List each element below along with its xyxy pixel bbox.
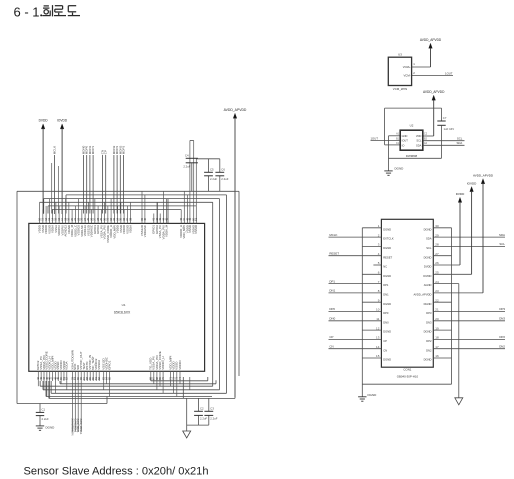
- wire rail t2: [66, 194, 227, 196]
- svg-text:MDP3: MDP3: [122, 146, 126, 155]
- svg-text:VDDHSC: VDDHSC: [143, 225, 147, 237]
- net label MDN1 wire: [89, 155, 91, 214]
- svg-text:DVDD: DVDD: [424, 265, 432, 269]
- svg-text:U2: U2: [410, 124, 414, 128]
- svg-text:SDA: SDA: [457, 141, 463, 145]
- net label MDP3 wire: [123, 155, 125, 214]
- svg-text:24: 24: [435, 280, 439, 284]
- svg-text:SDA: SDA: [416, 143, 422, 147]
- power flag AVDD_APVDD for U3: [429, 43, 433, 48]
- svg-text:DP2: DP2: [426, 339, 432, 343]
- svg-text:CAM_MCLK1: CAM_MCLK1: [79, 419, 83, 435]
- svg-text:CON1: CON1: [403, 368, 411, 372]
- svg-text:2.2uF: 2.2uF: [210, 417, 217, 421]
- svg-text:DP1: DP1: [383, 283, 389, 287]
- ground DGND left: [36, 426, 55, 431]
- svg-text:22: 22: [435, 298, 439, 302]
- U1 top pins group B: [140, 191, 147, 237]
- svg-text:VCM-: VCM-: [403, 74, 410, 78]
- capacitor C5: [204, 159, 217, 191]
- svg-text:EXTCLK: EXTCLK: [383, 237, 394, 241]
- analog ground triangle left block: [183, 431, 191, 438]
- net label CN wire: [102, 155, 104, 214]
- svg-text:DGND: DGND: [424, 227, 432, 231]
- svg-text:NC: NC: [383, 265, 387, 269]
- svg-text:1OUT: 1OUT: [371, 136, 379, 140]
- capacitor C3: [204, 398, 217, 425]
- net label MDP2 wire: [116, 155, 118, 214]
- svg-text:30: 30: [435, 224, 439, 228]
- svg-text:DGND: DGND: [424, 358, 432, 362]
- svg-text:19: 19: [435, 326, 439, 330]
- wire rail b5: [51, 392, 226, 394]
- U2 pin designators: [396, 133, 428, 145]
- svg-text:DN1: DN1: [383, 293, 389, 297]
- svg-text:IOVDD: IOVDD: [57, 119, 68, 123]
- wire rail b6: [46, 396, 212, 398]
- svg-text:DN3: DN3: [426, 320, 432, 324]
- wire CON1 IOVDD up: [433, 273, 471, 275]
- wire rail t6: [52, 209, 181, 211]
- svg-text:AVDD_APVDD: AVDD_APVDD: [224, 108, 247, 112]
- svg-text:DGND: DGND: [383, 358, 391, 362]
- wire CON1 DN2 out: [433, 348, 505, 350]
- svg-text:1uF 16V: 1uF 16V: [444, 127, 455, 131]
- analog ground triangle CON1: [455, 398, 463, 405]
- CON1 left DGND bus: [361, 228, 363, 397]
- svg-text:VSSD2: VSSD2: [97, 360, 101, 370]
- svg-text:29: 29: [435, 233, 439, 237]
- wire CON1 SCL out: [433, 245, 505, 247]
- wire AVDD to U2 VDD pin: [423, 135, 434, 137]
- capacitor C2: [194, 398, 207, 425]
- wire rail b2: [60, 383, 216, 385]
- svg-text:GB040-30P-H10: GB040-30P-H10: [397, 375, 419, 379]
- U1 top pins group C: [152, 191, 169, 239]
- wire U2 top rail: [385, 107, 442, 109]
- svg-text:VDDIO: VDDIO: [178, 360, 182, 370]
- capacitor C1 to DGND: [36, 404, 49, 426]
- svg-text:IOVDD: IOVDD: [467, 181, 477, 185]
- svg-text:DN0: DN0: [383, 320, 389, 324]
- svg-text:DGND: DGND: [383, 274, 391, 278]
- svg-text:C1: C1: [42, 407, 46, 411]
- U1 bottom pins group E: [168, 355, 182, 396]
- svg-text:DGND: DGND: [383, 227, 391, 231]
- svg-text:SCL: SCL: [457, 137, 463, 141]
- wire U2 IOUT 1OUT: [371, 140, 401, 142]
- svg-text:DVDD: DVDD: [39, 119, 49, 123]
- wire CON1 AGND down: [433, 283, 459, 285]
- wire CON1 DN3 out: [433, 320, 505, 322]
- svg-text:DGND: DGND: [424, 255, 432, 259]
- svg-text:DP2: DP2: [499, 335, 505, 339]
- CON1 right pin rows: [413, 224, 438, 362]
- power flag IOVDD CON1: [470, 187, 474, 192]
- power flag DVDD (top left): [41, 124, 45, 129]
- svg-text:VDDA_M: VDDA_M: [164, 224, 168, 237]
- svg-text:GND: GND: [402, 134, 408, 138]
- svg-text:DGND: DGND: [383, 330, 391, 334]
- svg-text:SDA: SDA: [426, 237, 432, 241]
- power flag AVDD_APVDD for U2: [432, 95, 436, 100]
- svg-text:2.2uF: 2.2uF: [200, 417, 207, 421]
- svg-text:SCL: SCL: [426, 246, 432, 250]
- svg-text:VDDIO_H: VDDIO_H: [161, 356, 165, 369]
- svg-text:2.2uF: 2.2uF: [210, 177, 217, 181]
- svg-text:1OUT: 1OUT: [445, 71, 453, 75]
- connector CON1 body: [381, 219, 433, 367]
- svg-text:DP0: DP0: [383, 311, 389, 315]
- net label CP wire: [105, 155, 107, 214]
- svg-text:MDP1: MDP1: [91, 146, 95, 155]
- svg-text:SCL: SCL: [499, 242, 505, 246]
- net label MDN2 wire: [113, 155, 115, 214]
- sensor IC U1 body: [29, 223, 205, 371]
- net label MCLK wire: [54, 155, 56, 214]
- U1 bottom pins group D: [149, 351, 165, 393]
- capacitor C4 with loop wire: [183, 141, 198, 192]
- svg-text:AVDD_APVDD: AVDD_APVDD: [423, 90, 445, 94]
- svg-text:DN1: DN1: [329, 289, 335, 293]
- svg-text:DGND: DGND: [383, 246, 391, 250]
- ground DGND U2: [384, 167, 404, 176]
- CON1 bottom wire to DGND: [362, 383, 451, 385]
- U1 top pins group A: [38, 199, 133, 243]
- svg-text:12: 12: [376, 326, 380, 330]
- svg-text:14: 14: [376, 345, 380, 349]
- net wires bottom (XSHUTDOWN/SCL/SDA/MCLK): [70, 381, 83, 436]
- svg-text:MCLK: MCLK: [329, 233, 337, 237]
- svg-text:CP: CP: [329, 335, 333, 339]
- svg-text:DP0: DP0: [329, 307, 335, 311]
- wire CON1 SDA out: [433, 236, 505, 238]
- ground DGND CON1: [358, 393, 377, 401]
- svg-text:DVDD: DVDD: [456, 192, 465, 196]
- svg-text:DW9808: DW9808: [406, 154, 418, 158]
- svg-text:GPIO1: GPIO1: [107, 360, 111, 370]
- svg-text:U3: U3: [398, 52, 402, 56]
- svg-text:DGND: DGND: [368, 393, 378, 397]
- CON1 left pin rows: [329, 224, 394, 362]
- svg-text:DN2: DN2: [499, 344, 505, 348]
- title hangul hoe-ro-do (drawn): [42, 5, 52, 16]
- svg-text:RESET: RESET: [329, 251, 339, 255]
- svg-text:VDDA: VDDA: [65, 361, 69, 369]
- svg-text:VCM+: VCM+: [403, 65, 411, 69]
- wire CON1 DVDD up: [433, 264, 460, 266]
- wire U2 SDA: [423, 144, 465, 146]
- svg-text:SDA: SDA: [499, 233, 505, 237]
- wire ring outer: [17, 191, 235, 403]
- svg-text:2.2uF: 2.2uF: [183, 165, 190, 169]
- wire drop x189.8: [189, 377, 191, 390]
- svg-text:SCL: SCL: [416, 139, 422, 143]
- svg-text:27: 27: [435, 252, 439, 256]
- U1 bottom pins group B (XSHUTDOWN SCK etc): [70, 350, 101, 381]
- svg-text:VSSIO: VSSIO: [194, 224, 198, 234]
- wire rail t5: [48, 205, 196, 207]
- wire rail b3: [40, 385, 213, 387]
- voice coil motor U3 body: [388, 57, 411, 85]
- wire rail for C5 C6: [196, 158, 220, 160]
- wire stubs up near MCLK: [51, 163, 53, 214]
- svg-text:IO: IO: [402, 143, 405, 147]
- net label MDP0 wire: [86, 155, 88, 214]
- svg-text:C2: C2: [200, 406, 204, 410]
- svg-text:2.2uF: 2.2uF: [42, 417, 49, 421]
- U1 bottom pins group A: [36, 351, 68, 398]
- svg-text:AVDD_APVDD: AVDD_APVDD: [420, 38, 442, 42]
- svg-text:C3: C3: [210, 406, 214, 410]
- capacitor C6: [215, 159, 228, 191]
- wire rail b4: [43, 389, 220, 391]
- svg-text:C6: C6: [221, 167, 225, 171]
- svg-text:CN: CN: [329, 344, 333, 348]
- svg-text:DGND: DGND: [424, 302, 432, 306]
- svg-text:DN2: DN2: [426, 348, 432, 352]
- wire rail b7 bottom bus: [49, 397, 235, 399]
- svg-text:17: 17: [435, 345, 439, 349]
- svg-text:VCM_2PIN: VCM_2PIN: [393, 87, 407, 91]
- wire rail b1: [151, 380, 208, 382]
- svg-text:AGND: AGND: [424, 283, 432, 287]
- svg-text:CN: CN: [383, 348, 387, 352]
- svg-text:AVDD_APVDD: AVDD_APVDD: [473, 174, 494, 178]
- net label MDP1 wire: [92, 155, 94, 214]
- capacitor C7: [437, 108, 454, 158]
- svg-text:C5: C5: [210, 167, 214, 171]
- wire rail t4: [40, 201, 213, 203]
- svg-text:RESET: RESET: [383, 255, 392, 259]
- svg-text:DGND: DGND: [395, 167, 405, 171]
- power flag DVDD CON1: [458, 197, 462, 202]
- svg-text:IOUT: IOUT: [402, 139, 409, 143]
- net label MDN0 wire: [83, 155, 85, 214]
- svg-text:DP3: DP3: [499, 307, 505, 311]
- svg-text:AVDD_APVDD: AVDD_APVDD: [413, 293, 431, 297]
- CON1 right DGND bus: [433, 228, 451, 384]
- svg-text:DN3: DN3: [499, 317, 505, 321]
- wire CON1 AVDD up: [433, 292, 483, 294]
- wire rail t3: [44, 198, 220, 200]
- U1 top pins group D: [179, 141, 198, 239]
- net label MDN3 wire: [119, 155, 121, 214]
- wire vertical right x239: [238, 191, 240, 376]
- power flag IOVDD (top left): [60, 124, 64, 129]
- svg-text:C7: C7: [443, 116, 447, 120]
- svg-text:CP: CP: [383, 339, 387, 343]
- power flag AVDD_APVDD (left block): [233, 113, 237, 118]
- svg-text:VDD: VDD: [416, 134, 422, 138]
- svg-text:CP: CP: [104, 150, 108, 154]
- svg-text:C4: C4: [185, 154, 189, 158]
- svg-text:DGND: DGND: [424, 330, 432, 334]
- svg-text:U1: U1: [122, 303, 126, 307]
- svg-text:DP1: DP1: [329, 279, 335, 283]
- svg-text:DP3: DP3: [426, 311, 432, 315]
- U2 pin names: [402, 134, 422, 147]
- wire U2 bottom rail to DGND: [389, 157, 442, 159]
- wire CON1 DP3 out: [433, 311, 505, 313]
- driver IC U2 body: [400, 130, 423, 150]
- U1 bottom pins group C: [102, 356, 112, 396]
- wire U2 GND pin: [389, 135, 401, 137]
- power flag AVDD_APVDD CON1: [481, 179, 485, 184]
- svg-text:6 - 1: 6 - 1: [14, 5, 40, 20]
- svg-text:VDDA: VDDA: [129, 225, 133, 233]
- svg-text:Sensor Slave Address : 0x20h/: Sensor Slave Address : 0x20h/ 0x21h: [24, 465, 209, 477]
- wire CON1 DP2 out: [433, 338, 505, 340]
- svg-text:MCLK: MCLK: [53, 146, 57, 154]
- svg-text:DGND: DGND: [46, 426, 56, 430]
- svg-text:2.2uF: 2.2uF: [221, 177, 228, 181]
- wire AGND join bottom: [186, 398, 188, 431]
- svg-text:DGND: DGND: [383, 302, 391, 306]
- svg-text:IOVDD: IOVDD: [423, 274, 432, 278]
- svg-text:S5K3L6XX: S5K3L6XX: [114, 310, 131, 314]
- svg-text:DN0: DN0: [329, 317, 335, 321]
- wire U2 SCL: [423, 140, 465, 142]
